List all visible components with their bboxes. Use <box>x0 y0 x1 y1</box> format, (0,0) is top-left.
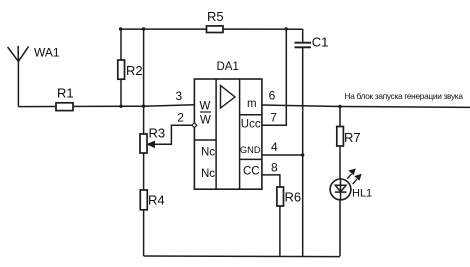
resistor R2 <box>118 60 125 79</box>
svg-text:GND: GND <box>240 145 261 155</box>
svg-text:8: 8 <box>271 161 278 175</box>
svg-text:R1: R1 <box>57 86 74 101</box>
svg-text:R4: R4 <box>148 193 165 208</box>
resistor R7 <box>337 127 344 147</box>
node output to R7 <box>338 105 341 108</box>
svg-text:3: 3 <box>176 89 183 103</box>
svg-text:6: 6 <box>269 88 276 102</box>
capacitor C1 <box>295 29 312 256</box>
resistor R4 <box>140 190 147 210</box>
wire GND pin 4 <box>262 154 303 156</box>
IC inner labels <box>200 98 261 180</box>
svg-text:R7: R7 <box>344 130 361 145</box>
node R3 branch to main wire <box>142 105 145 108</box>
node top Ucc branch <box>285 27 288 30</box>
svg-text:W: W <box>200 101 211 113</box>
resistor R6 <box>277 187 284 206</box>
wire main input <box>18 105 194 107</box>
wire R3/R4 branch <box>143 29 145 256</box>
node top-left corner <box>119 27 122 30</box>
svg-text:R3: R3 <box>149 126 166 141</box>
svg-text:R5: R5 <box>207 9 224 24</box>
potentiometer R3 <box>140 134 147 153</box>
svg-text:DA1: DA1 <box>217 61 239 73</box>
svg-text:Nc: Nc <box>201 146 215 158</box>
resistor R5 <box>207 26 224 33</box>
svg-text:Ucc: Ucc <box>241 119 261 131</box>
op-amp triangle inside DA1 <box>221 86 236 109</box>
IC DA1 body <box>194 79 262 189</box>
wire CC pin 8 to R6 <box>262 175 280 256</box>
wire bottom rail <box>144 255 340 258</box>
svg-text:W: W <box>200 115 211 127</box>
svg-text:R6: R6 <box>285 190 302 205</box>
LED emission arrows <box>347 174 351 179</box>
wire R3 wiper to pin 2 <box>147 125 192 147</box>
junction dots <box>119 27 342 156</box>
antenna WA1 <box>8 46 29 107</box>
svg-text:R2: R2 <box>126 63 143 78</box>
svg-text:2: 2 <box>177 110 184 124</box>
svg-text:C1: C1 <box>312 35 329 50</box>
svg-text:m: m <box>247 98 257 110</box>
LED HL1 <box>330 169 361 200</box>
pin numbers <box>176 88 279 174</box>
svg-text:WA1: WA1 <box>34 46 60 60</box>
svg-text:CC: CC <box>243 166 260 178</box>
node top R3 branch <box>142 27 145 30</box>
svg-text:7: 7 <box>270 110 277 124</box>
svg-text:HL1: HL1 <box>352 187 372 199</box>
svg-text:На блок запуска генерации звук: На блок запуска генерации звука <box>345 91 464 101</box>
svg-text:Nc: Nc <box>201 168 215 180</box>
node R2 to main wire <box>119 105 122 108</box>
wire R2 branch <box>120 29 122 106</box>
svg-text:4: 4 <box>271 140 278 154</box>
pin 2 inversion diamond <box>192 123 197 128</box>
wire Ucc pin 7 to top rail <box>262 29 286 125</box>
node GND junction <box>301 153 304 156</box>
overline for W-bar <box>200 111 211 113</box>
wire top rail <box>121 28 303 30</box>
resistor R1 <box>56 103 73 111</box>
wire HL1 branch <box>339 107 341 257</box>
wire pin 6 output <box>262 105 470 107</box>
